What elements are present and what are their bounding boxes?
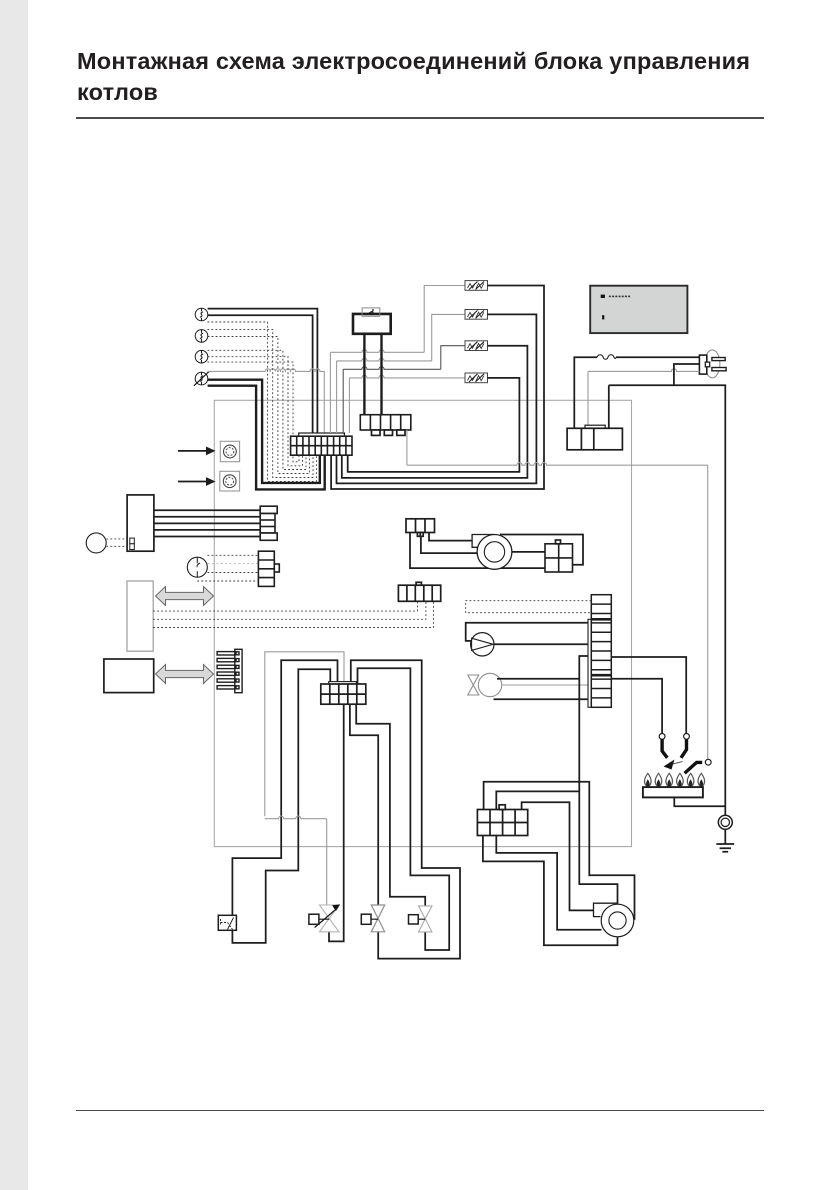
wire B4 thick pair to comb bottom: [208, 380, 320, 483]
wire comb X12 to modulating valve loop: [329, 704, 344, 941]
pump P1: [466, 623, 589, 641]
connector X3 (under thermostat): [360, 415, 411, 430]
room unit sensor circle: [187, 557, 207, 577]
pressure switch block: [545, 544, 573, 572]
bus interface box 1: [127, 581, 153, 651]
connector X7: [398, 585, 440, 601]
X9 wires: [410, 533, 547, 573]
connector stack X10: [588, 619, 591, 707]
wire B4 thin (wavy hops) to comb: [207, 369, 324, 372]
burner earth tail: [674, 797, 725, 806]
wire comb X12 to flow switch (bottom loop): [232, 669, 330, 943]
coil box K2: [465, 310, 488, 320]
flow switch: [218, 915, 236, 930]
temperature sensor B2: [195, 330, 208, 343]
connector X6: [258, 551, 279, 586]
wire comb to coil K2 (gray): [336, 361, 338, 433]
coil box K1: [465, 281, 488, 291]
control board outline: [214, 400, 631, 846]
indicator arrow 1: [178, 450, 206, 452]
coil box K4: [465, 373, 488, 383]
display module (grey box): [590, 286, 687, 333]
dashed room-stat link: [466, 601, 592, 613]
wire comb to coil K4 (gray): [348, 378, 350, 433]
wire comb X12 to flow switch (top): [232, 660, 337, 915]
burner bar: [643, 787, 703, 797]
gray wire X3 to ionization electrode: [406, 430, 408, 465]
wire over fan top: [500, 535, 583, 565]
return wires K1..K4 to comb bottom: [331, 286, 544, 490]
valve V2: [371, 905, 384, 932]
dotted wires to connector X6: [197, 555, 258, 581]
mains terminal block X4 lip: [585, 425, 605, 428]
ignition electrode 2: [684, 734, 690, 740]
temperature sensor B1: [195, 308, 208, 321]
overheat thermostat ST: [353, 314, 391, 334]
pin header X8: [217, 649, 242, 692]
gas valve V1: [468, 675, 479, 695]
wire comb X12 to valve V3 bottom loop: [358, 668, 450, 950]
mains fuse F1: [574, 357, 699, 428]
wire stack to valve top / blower run: [497, 656, 618, 904]
terminal comb X12: [321, 684, 366, 704]
ionization electrode: [685, 762, 703, 773]
wire comb to igniter coil K1 (gray): [329, 352, 331, 433]
temperature sensor B3: [195, 350, 208, 363]
wire B1 to terminal comb (2 lines): [208, 309, 318, 437]
valve V3: [419, 906, 432, 932]
thermostat leads down to connector: [364, 334, 381, 415]
terminal comb X12 lip: [329, 682, 357, 684]
connector X11 wires (bottom): [483, 836, 618, 946]
connector X5: [260, 506, 277, 540]
indicator arrow 2: [178, 481, 206, 483]
wire comb X12 to valve V2 top: [350, 704, 378, 905]
mains plug XP: [705, 350, 720, 378]
wire fan to gas pressure switch: [512, 551, 545, 553]
wire comb X12 to valve V3 top: [356, 704, 425, 906]
coil box K3: [465, 341, 488, 351]
double arrow 1: [156, 587, 214, 606]
connector X11: [477, 810, 527, 836]
terminal comb X2 top lip: [299, 433, 345, 436]
earth ground: [718, 815, 732, 829]
spark arrow: [664, 760, 675, 770]
wires stack to ignition electrodes: [611, 657, 686, 734]
grey wire comb X12 to modulating valve: [265, 652, 344, 816]
indicator window 2: [220, 471, 240, 491]
control panel unit A1: [127, 495, 154, 551]
double arrow 2: [156, 665, 214, 684]
wire comb to coil K3: [342, 369, 344, 433]
sensor B4 (crossed out): [194, 371, 209, 385]
ignition electrode 1: [659, 734, 665, 740]
bus interface box 2: [104, 659, 154, 693]
mains terminal block X4: [567, 428, 622, 450]
outdoor sensor: [86, 533, 106, 553]
ribbon A1 to X5 (5 wires): [154, 509, 260, 511]
modulating gas valve V4: [320, 905, 339, 932]
connector X11 wires (top): [484, 782, 635, 920]
wire comb X12 to valve V2 bottom loop: [351, 660, 460, 958]
plug line wire + earth run: [609, 364, 726, 815]
plug neutral wire (grey): [588, 369, 699, 372]
air pressure switch (venturi) fan: [472, 535, 494, 548]
burner flames: [644, 773, 651, 787]
connector X9 (air pressure switch): [406, 519, 435, 533]
dashed bus wires to connector X7: [153, 601, 433, 627]
exhaust blower M1: [594, 903, 618, 916]
terminal comb X2: [291, 436, 352, 455]
indicator window 1: [220, 441, 239, 461]
dashed sensor wires nest (B1..B3): [207, 322, 316, 482]
